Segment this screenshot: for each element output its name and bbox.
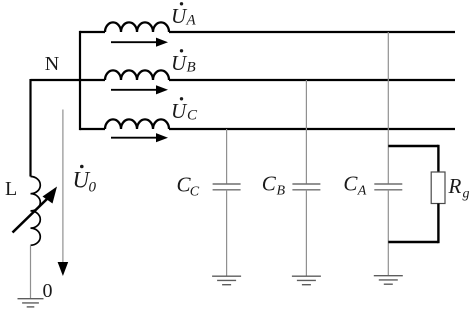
wire phase B left segment (from N node) <box>31 79 106 81</box>
adjustment arrow over L <box>13 198 49 233</box>
voltage arrow U0 <box>58 110 69 277</box>
svg-text:B: B <box>187 60 196 76</box>
resistor Rg body <box>431 172 445 204</box>
ground CB <box>292 276 321 285</box>
svg-text:0: 0 <box>43 280 53 302</box>
inductor phase A winding <box>105 22 169 32</box>
wire CA to ground <box>387 190 389 276</box>
label Rg <box>448 174 470 202</box>
inductor phase B winding <box>105 70 169 80</box>
current arrow phase A <box>111 38 168 47</box>
wire Rg branch right upper <box>437 145 439 172</box>
wire C_A drop from phase A <box>387 32 389 184</box>
svg-text:0: 0 <box>89 179 97 195</box>
current arrow phase B <box>111 85 168 94</box>
wire CB to ground <box>305 190 307 276</box>
svg-text:U: U <box>171 51 188 75</box>
wire N drop to coil L <box>29 79 31 177</box>
wire phase A left segment <box>80 31 105 33</box>
wire Rg branch right lower <box>437 204 439 244</box>
wire C_C drop from phase C <box>226 129 228 184</box>
svg-text:L: L <box>5 178 17 200</box>
wire phase A right segment <box>169 31 455 33</box>
label UB <box>171 49 196 75</box>
capacitor CB <box>292 184 320 190</box>
svg-text:C: C <box>343 172 358 196</box>
label UC <box>171 97 198 123</box>
label CB <box>262 172 286 199</box>
wire phase C left segment <box>80 128 105 130</box>
svg-text:g: g <box>463 187 470 202</box>
ground CC <box>212 276 241 285</box>
svg-text:A: A <box>186 13 197 29</box>
wire phase B right segment <box>169 79 455 81</box>
svg-text:C: C <box>187 108 198 124</box>
inductor L winding <box>31 177 41 246</box>
current arrow phase C <box>111 133 168 142</box>
wire neutral bus vertical <box>79 31 81 130</box>
wire L to ground <box>30 245 32 298</box>
svg-text:N: N <box>45 53 59 75</box>
svg-text:B: B <box>277 183 286 198</box>
wire CC to ground <box>226 190 228 276</box>
ground 0 <box>18 299 44 307</box>
svg-text:A: A <box>357 184 367 199</box>
label U0 <box>73 165 97 196</box>
inductor phase C winding <box>105 119 169 129</box>
wire C_B drop from phase B <box>305 80 307 184</box>
svg-text:C: C <box>262 172 277 196</box>
capacitor CA <box>374 184 402 190</box>
svg-text:U: U <box>171 4 188 28</box>
svg-text:R: R <box>448 174 462 198</box>
label UA <box>171 2 197 28</box>
wire Rg branch bottom <box>388 241 438 243</box>
label CA <box>343 172 366 199</box>
svg-text:U: U <box>171 99 188 123</box>
ground CA <box>374 276 403 285</box>
wire Rg branch top <box>388 145 438 147</box>
wire phase C right segment <box>169 128 455 130</box>
capacitor CC <box>213 184 241 190</box>
label CC <box>177 173 200 200</box>
svg-text:C: C <box>190 184 200 199</box>
